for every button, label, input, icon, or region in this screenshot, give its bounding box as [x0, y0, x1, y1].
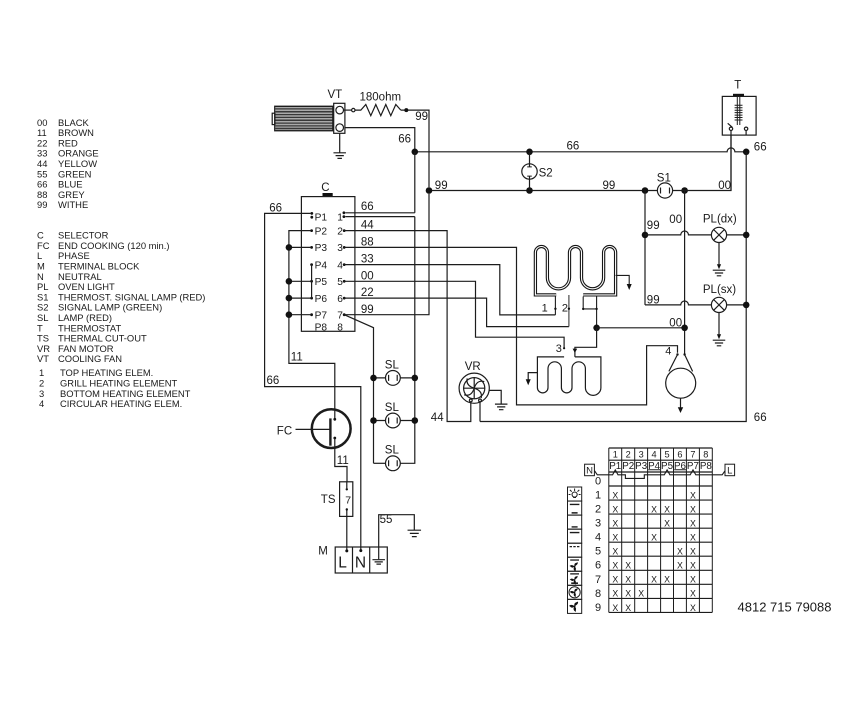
legend: heating element numbers	[39, 367, 191, 409]
svg-text:X: X	[690, 519, 696, 529]
signal lamp S2 (green)	[522, 152, 553, 191]
svg-text:00: 00	[718, 180, 731, 192]
svg-text:X: X	[638, 589, 644, 599]
svg-text:X: X	[664, 504, 670, 514]
junction: S2 top on 66 line	[526, 149, 533, 156]
table X marks	[612, 490, 696, 612]
signal lamp SL3 (red)	[374, 445, 401, 471]
open terminal circle at VT output	[344, 108, 355, 111]
svg-text:1: 1	[595, 490, 601, 502]
wire 66: lamp right bus from pin 1 lower down to SL3	[400, 217, 415, 464]
svg-text:1: 1	[542, 302, 548, 314]
svg-text:WITHE: WITHE	[58, 199, 88, 210]
svg-text:3: 3	[556, 343, 562, 355]
svg-text:X: X	[651, 533, 657, 543]
wire 00: element node to circular element node	[597, 317, 685, 329]
svg-text:00: 00	[361, 270, 374, 282]
svg-text:5: 5	[595, 546, 601, 558]
svg-text:P8: P8	[315, 323, 328, 334]
svg-text:4: 4	[595, 532, 601, 544]
svg-text:4812 715 79088: 4812 715 79088	[738, 599, 832, 614]
wire: P4 to P6 link inside left side	[311, 265, 313, 299]
thermostat T	[722, 80, 756, 136]
svg-text:99: 99	[603, 180, 616, 192]
svg-text:0: 0	[595, 476, 601, 488]
svg-text:P3: P3	[315, 243, 328, 254]
wire 11: P2 group down to end-cooking timer FC	[289, 231, 335, 420]
svg-text:X: X	[664, 519, 670, 529]
svg-text:T: T	[734, 80, 741, 92]
legend: component abbreviations	[37, 230, 205, 365]
wire 66: selector pin 1 pass-through (lower wire to lamps)	[343, 215, 415, 218]
wire: TS down to terminal block L	[346, 516, 348, 549]
ground below PL(dx)	[713, 243, 726, 276]
svg-text:4: 4	[337, 260, 343, 271]
thermal cut-out TS	[321, 482, 353, 517]
wire stubs P3 P5 P6 P7 to common left bus	[289, 247, 311, 314]
svg-text:X: X	[612, 575, 618, 585]
ground below VT	[333, 133, 346, 158]
svg-text:66: 66	[567, 141, 580, 153]
junction P6 on left bus	[286, 295, 293, 302]
svg-text:P6: P6	[674, 461, 687, 472]
svg-text:VR: VR	[465, 361, 481, 373]
svg-text:99: 99	[37, 199, 47, 210]
svg-text:2: 2	[626, 450, 631, 460]
selector C body	[301, 182, 355, 331]
svg-text:X: X	[625, 603, 631, 613]
wire: VR frame to chassis ground	[489, 390, 507, 409]
wire: pin 7 diagonal down to lamp left bus	[344, 315, 373, 464]
wire: T left lead down across 66 line to 00 node	[730, 135, 732, 190]
wire 66: VT bottom terminal to node A	[345, 128, 415, 152]
svg-text:VT: VT	[37, 353, 49, 364]
svg-text:6: 6	[677, 450, 682, 460]
svg-text:66: 66	[398, 133, 411, 145]
svg-text:COOLING FAN: COOLING FAN	[58, 353, 122, 364]
ground below PL(sx)	[713, 313, 726, 346]
svg-text:FC: FC	[277, 426, 292, 438]
junction: PL(dx) branch	[642, 232, 649, 239]
svg-text:P5: P5	[315, 277, 328, 288]
wire 66: P1 left down to terminal block N	[265, 203, 361, 550]
wire 99: resistor to node, small end dot	[401, 108, 429, 187]
junction SL1 left	[370, 375, 377, 382]
svg-text:66: 66	[269, 203, 282, 215]
svg-text:8: 8	[337, 323, 343, 334]
svg-text:X: X	[612, 504, 618, 514]
svg-text:PL(sx): PL(sx)	[703, 284, 736, 296]
svg-text:3: 3	[639, 450, 644, 460]
svg-text:2: 2	[562, 302, 568, 314]
wire 66: right bus from T down to bottom	[480, 152, 767, 424]
svg-text:7: 7	[690, 450, 695, 460]
junction SL2 right	[412, 417, 419, 424]
svg-text:66: 66	[754, 141, 767, 153]
svg-text:5: 5	[337, 277, 343, 288]
selector C pin labels and pin dots	[310, 212, 345, 334]
wire 00: pin 5 to element 3 terminal	[344, 270, 564, 348]
chassis ground for wire 55	[408, 530, 422, 536]
junction P7 on left bus	[286, 311, 293, 318]
wire 99: S1-left node down to oven lights	[645, 191, 660, 307]
table L terminal box	[725, 464, 735, 476]
svg-text:4: 4	[39, 398, 44, 409]
wire 22: pin 6 to element 2 terminal	[344, 287, 569, 326]
wire 33: pin 4 to element 1 terminal	[344, 254, 555, 315]
svg-text:X: X	[612, 490, 618, 500]
resistor 180ohm	[355, 91, 401, 115]
svg-text:33: 33	[361, 254, 374, 266]
junction P5 on left bus	[286, 278, 293, 285]
wire: VR right terminal to bottom 66 line	[479, 402, 481, 422]
svg-text:7: 7	[345, 494, 351, 506]
svg-text:X: X	[690, 533, 696, 543]
svg-text:99: 99	[647, 220, 660, 232]
element 3 left lead to chassis arrow	[526, 373, 538, 386]
svg-text:00: 00	[669, 214, 682, 226]
svg-text:X: X	[651, 575, 657, 585]
junction: S2 bottom on 99 line	[526, 187, 533, 194]
svg-text:L: L	[338, 554, 347, 571]
svg-text:3: 3	[337, 243, 343, 254]
wire 99: node to S1	[426, 180, 658, 194]
svg-text:4: 4	[652, 450, 657, 460]
svg-text:2: 2	[337, 226, 343, 237]
table N-L bridge line	[594, 470, 725, 479]
svg-text:X: X	[677, 547, 683, 557]
svg-text:99: 99	[415, 111, 428, 123]
svg-text:X: X	[651, 504, 657, 514]
svg-text:6: 6	[595, 560, 601, 572]
table header pin numbers	[609, 450, 712, 473]
wire 88: pin 3 around bottom to circular element 4	[344, 237, 677, 405]
junction: T right terminal on 66 line	[743, 149, 750, 156]
wire 66: from node A down to pin 1 upper	[414, 152, 416, 213]
svg-text:PL(dx): PL(dx)	[703, 214, 737, 226]
svg-text:P2: P2	[622, 461, 634, 472]
svg-text:3: 3	[595, 518, 601, 530]
junction: S1 right	[681, 187, 688, 194]
svg-text:4: 4	[665, 346, 671, 358]
svg-text:55: 55	[380, 514, 393, 526]
svg-text:66: 66	[361, 201, 374, 213]
svg-text:44: 44	[361, 220, 374, 232]
svg-text:X: X	[677, 561, 683, 571]
svg-text:M: M	[318, 546, 328, 558]
svg-text:SL: SL	[385, 402, 400, 414]
junction: elements to 00 node	[593, 325, 600, 332]
svg-text:5: 5	[664, 450, 669, 460]
wire 00: S1 to T left lead	[673, 135, 731, 192]
svg-text:180ohm: 180ohm	[360, 91, 402, 103]
selector function table grid	[609, 448, 713, 612]
junction node A (66)	[412, 149, 419, 156]
svg-text:N: N	[586, 465, 593, 476]
junction: PL(sx) to 66 bus	[743, 302, 750, 309]
wire 11: FC to thermal cut-out TS	[335, 438, 349, 482]
svg-text:X: X	[612, 519, 618, 529]
svg-text:S1: S1	[657, 173, 671, 185]
element 1/2 inner leads to 00 node	[582, 297, 598, 328]
svg-text:X: X	[625, 561, 631, 571]
wire 99: pin 7 up to resistor node	[344, 194, 429, 316]
svg-text:X: X	[690, 504, 696, 514]
svg-text:X: X	[690, 561, 696, 571]
heating element 3 (bottom, meander)	[537, 343, 601, 395]
element 2 terminal lead (pin 2)	[562, 295, 570, 327]
svg-text:99: 99	[361, 304, 374, 316]
svg-text:X: X	[690, 603, 696, 613]
svg-text:6: 6	[337, 294, 343, 305]
table P4 and P6 header underlines	[648, 469, 686, 471]
svg-text:X: X	[612, 547, 618, 557]
svg-text:2: 2	[595, 504, 601, 516]
svg-text:P8: P8	[700, 461, 713, 472]
wire: 00 node down to element 3 second terminal (arrow tick)	[573, 328, 597, 357]
thermostat signal lamp S1 (red)	[657, 173, 673, 198]
svg-text:1: 1	[613, 450, 618, 460]
cooling fan motor VT	[272, 89, 345, 133]
svg-text:X: X	[625, 589, 631, 599]
svg-text:L: L	[727, 465, 732, 476]
svg-text:X: X	[625, 575, 631, 585]
svg-text:SL: SL	[385, 445, 400, 457]
svg-text:66: 66	[267, 375, 280, 387]
svg-text:SL: SL	[385, 359, 400, 371]
part number	[738, 599, 832, 614]
svg-text:66: 66	[754, 412, 767, 424]
svg-text:7: 7	[337, 310, 343, 321]
element 1 terminal lead (pin 1)	[542, 297, 557, 315]
heating elements 1 and 2 (top/grill, double meander)	[535, 247, 615, 295]
legend: wire colour codes	[37, 117, 99, 210]
svg-text:1: 1	[337, 213, 343, 224]
svg-text:8: 8	[703, 450, 708, 460]
junction SL1 right	[412, 375, 419, 382]
svg-text:44: 44	[431, 412, 444, 424]
svg-text:CIRCULAR HEATING ELEM.: CIRCULAR HEATING ELEM.	[60, 398, 182, 409]
junction P3 on left bus	[286, 244, 293, 251]
svg-text:X: X	[690, 575, 696, 585]
svg-text:X: X	[612, 533, 618, 543]
svg-text:P1: P1	[315, 213, 328, 224]
wire 00: S1-right node down to circular element (hops over PL lines)	[669, 191, 684, 355]
svg-text:88: 88	[361, 237, 374, 249]
junction: 00 node above circular element	[681, 325, 688, 332]
svg-text:9: 9	[595, 602, 601, 614]
svg-text:22: 22	[361, 287, 374, 299]
terminal block M	[318, 546, 387, 573]
svg-text:S2: S2	[539, 167, 553, 179]
svg-text:X: X	[690, 547, 696, 557]
svg-text:VT: VT	[328, 89, 343, 101]
junction SL2 left	[370, 417, 377, 424]
svg-text:P6: P6	[315, 294, 328, 305]
junction: S1 left	[642, 187, 649, 194]
wire 55: earth terminal to chassis ground	[379, 514, 415, 547]
signal lamp SL2 (red)	[374, 402, 415, 428]
svg-text:7: 7	[595, 574, 601, 586]
svg-text:99: 99	[435, 180, 448, 192]
svg-text:TS: TS	[321, 494, 336, 506]
fan motor VR	[459, 361, 489, 404]
end-cooking timer FC	[277, 409, 351, 448]
wire 66: selector pin 1 pass-through (upper wire from VT)	[343, 201, 415, 214]
signal lamp SL1 (red)	[374, 359, 415, 385]
svg-text:X: X	[612, 561, 618, 571]
svg-text:X: X	[612, 589, 618, 599]
element 1/2 right lead to chassis arrow	[616, 275, 632, 290]
svg-text:P4: P4	[648, 461, 661, 472]
svg-text:X: X	[612, 603, 618, 613]
table N terminal box	[585, 464, 595, 476]
circular heating element 4	[665, 346, 695, 413]
svg-text:P7: P7	[315, 310, 328, 321]
wire 66: node A to thermostat T (hop over T left lead)	[415, 141, 767, 154]
svg-text:X: X	[690, 490, 696, 500]
svg-text:C: C	[321, 182, 329, 194]
junction: PL(dx) to 66 bus	[743, 232, 750, 239]
svg-text:X: X	[690, 589, 696, 599]
svg-text:N: N	[355, 554, 366, 571]
svg-text:8: 8	[595, 588, 601, 600]
oven light PL(sx)	[645, 284, 746, 312]
table function icons	[568, 487, 582, 613]
table row numbers 0-9	[595, 476, 601, 614]
svg-text:11: 11	[291, 351, 303, 363]
svg-text:P4: P4	[315, 260, 328, 271]
wire 44: pin 2 down to fan motor VR	[344, 220, 471, 424]
svg-text:P3: P3	[635, 461, 648, 472]
svg-text:P2: P2	[315, 226, 328, 237]
oven light PL(dx)	[645, 214, 746, 243]
svg-text:00: 00	[669, 317, 682, 329]
svg-text:X: X	[664, 575, 670, 585]
svg-text:11: 11	[337, 455, 349, 467]
